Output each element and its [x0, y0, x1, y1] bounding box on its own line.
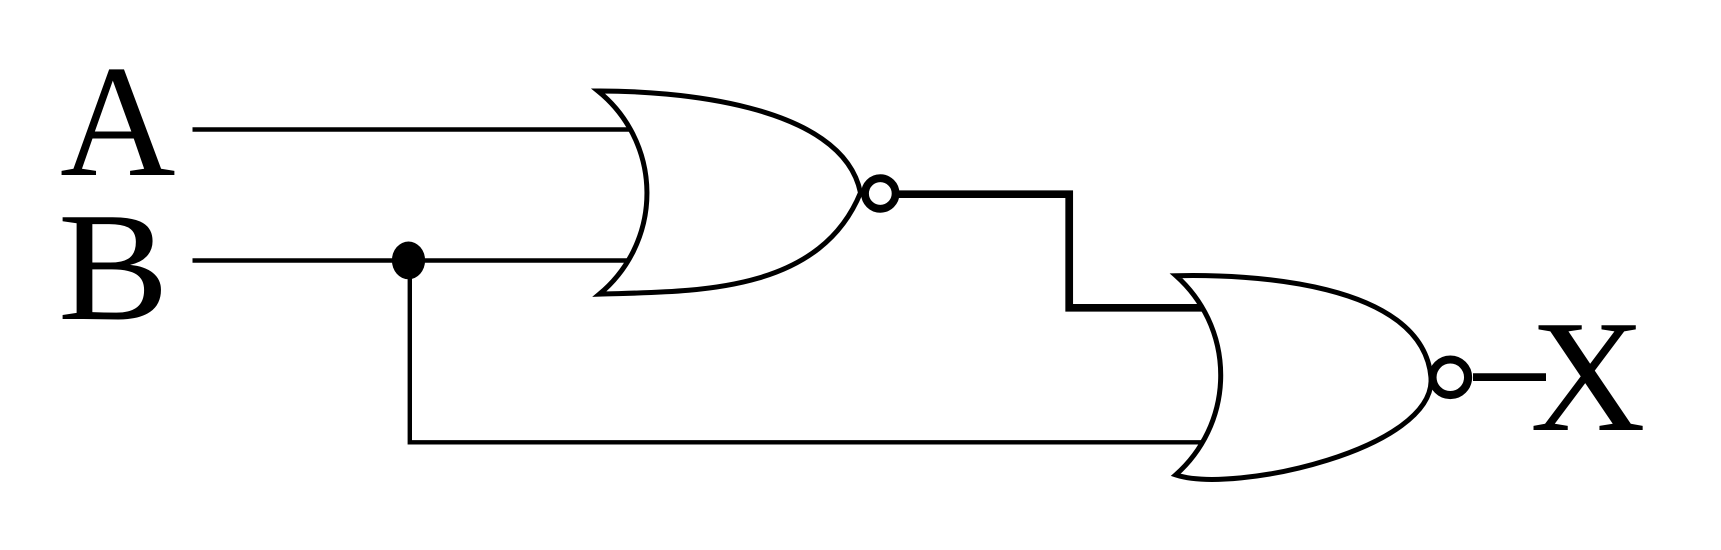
svg-text:B: B — [58, 180, 169, 352]
svg-text:X: X — [1530, 287, 1646, 465]
